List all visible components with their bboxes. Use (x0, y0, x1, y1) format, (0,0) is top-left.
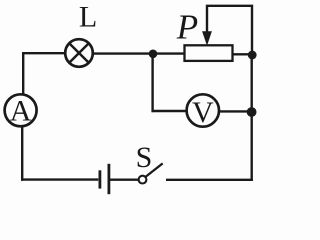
wire: voltmeter to right vertical (220, 110, 253, 112)
node: left junction (149, 50, 158, 59)
wire: top-left horizontal (lamp to left corner) (22, 52, 65, 54)
wire: left junction down to voltmeter branch (151, 54, 153, 112)
ammeter A (5, 94, 37, 127)
wire: bottom-left horizontal (corner to battery) (21, 178, 98, 180)
wire: branch to voltmeter (152, 110, 187, 112)
svg-text:A: A (10, 95, 32, 128)
node: right top junction (248, 51, 257, 60)
rheostat wiper arrow with top loop (202, 6, 252, 54)
svg-text:V: V (192, 96, 214, 129)
wire: switch to bottom-right corner (166, 179, 253, 181)
voltmeter V (187, 94, 219, 129)
wire: battery to switch (110, 178, 139, 180)
wire: lamp to rheostat (93, 52, 185, 54)
svg-text:S: S (136, 141, 153, 174)
rheostat P (resistor body) (185, 45, 233, 61)
wire: rheostat right terminal to right node (233, 53, 252, 55)
svg-text:L: L (79, 0, 97, 33)
battery (100, 164, 109, 194)
svg-text:P: P (176, 8, 198, 47)
lamp L (65, 39, 93, 67)
wire: right vertical (top node down to bottom corner) (250, 55, 252, 181)
wire: left vertical upper (corner down to ammeter) (22, 52, 24, 94)
wire: left vertical lower (ammeter to bottom corner) (21, 127, 23, 181)
node: right middle junction (247, 107, 257, 117)
switch S (139, 163, 163, 183)
